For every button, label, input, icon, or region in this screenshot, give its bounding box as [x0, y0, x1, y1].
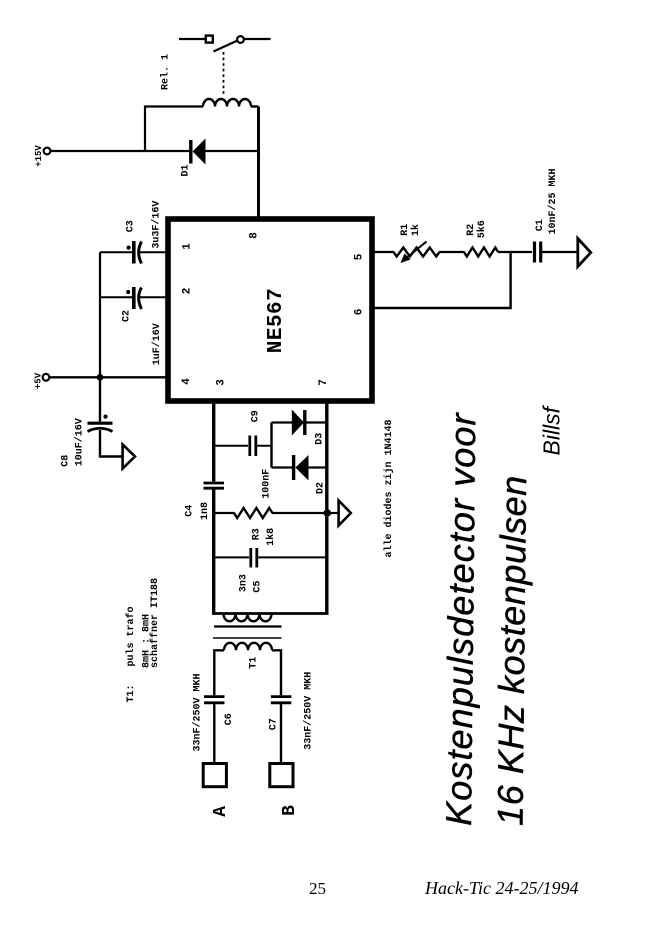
wire left vertical C3-C2-+5V	[99, 252, 101, 377]
diode D1 triangle	[193, 139, 206, 165]
ground symbol at R3 junction	[339, 501, 351, 526]
capacitor C2 wire left	[100, 296, 132, 298]
svg-text:R2: R2	[466, 224, 477, 236]
wire +15V rail to D1	[51, 150, 190, 152]
svg-text:5: 5	[354, 253, 366, 260]
relay actuation dashed link	[223, 52, 225, 95]
capacitor C1 plates	[533, 242, 536, 263]
resistor R1 (trimmer) zigzag	[394, 248, 440, 257]
svg-text:C6: C6	[224, 713, 235, 725]
wire junction to ground	[327, 512, 338, 514]
svg-text:+15V: +15V	[34, 145, 44, 167]
+15V terminal	[44, 148, 51, 155]
transformer T1 secondary winding	[224, 643, 272, 650]
diode D3 cathode bar	[303, 410, 306, 435]
svg-text:33nF/250V MKH: 33nF/250V MKH	[303, 672, 315, 750]
op-amp/IC NE567 body	[168, 219, 372, 401]
svg-text:A: A	[211, 806, 231, 817]
resistor R3 zigzag	[234, 508, 272, 518]
relay contact fixed terminal (square)	[206, 36, 213, 43]
capacitor C7 bottom wire	[280, 704, 282, 764]
svg-text:Hack-Tic 24-25/1994: Hack-Tic 24-25/1994	[424, 878, 578, 898]
capacitor C3 straight plate	[132, 241, 136, 264]
svg-text:8: 8	[249, 232, 261, 239]
svg-text:7: 7	[318, 379, 330, 386]
ground symbol at C1	[578, 239, 591, 267]
svg-text:16 KHz kostenpulsen: 16 KHz kostenpulsen	[490, 475, 535, 826]
svg-text:C1: C1	[535, 219, 546, 231]
wire pin 3 vertical upper	[212, 401, 215, 482]
capacitor C6 bottom wire	[213, 704, 215, 764]
svg-text:33nF/250V MKH: 33nF/250V MKH	[192, 673, 204, 751]
svg-text:4: 4	[181, 378, 193, 385]
wire R2 to C1	[498, 251, 532, 253]
transformer secondary left lead	[214, 650, 224, 695]
svg-text:25: 25	[309, 879, 326, 898]
capacitor C9 wire left	[214, 445, 248, 447]
wire coil right to vertical	[251, 105, 259, 107]
relay contact blade	[214, 41, 238, 52]
capacitor C8 plus mark	[103, 415, 107, 419]
wire pin 5 to R1	[372, 251, 394, 253]
capacitor C4 plates	[204, 482, 225, 485]
capacitor C2 straight plate	[132, 287, 136, 309]
svg-text:1n8: 1n8	[200, 502, 211, 520]
svg-text:NE567: NE567	[265, 288, 288, 354]
capacitor C3 plus mark	[127, 246, 131, 250]
wire R3 to junction	[272, 512, 327, 514]
wire C4 junction to R3	[214, 512, 235, 514]
capacitor C3 wire right	[139, 251, 168, 253]
wire C1 to ground	[542, 251, 577, 253]
wire to D2	[272, 466, 294, 468]
svg-text:3: 3	[216, 379, 228, 386]
wire D2 to pin 7 line	[308, 466, 327, 468]
capacitor C3 wire left	[100, 251, 132, 253]
svg-text:100nF: 100nF	[262, 469, 273, 499]
svg-text:10nF/25 MKH: 10nF/25 MKH	[547, 168, 559, 234]
svg-text:10uF/16V: 10uF/16V	[74, 418, 86, 466]
svg-text:D2: D2	[316, 482, 327, 494]
svg-text:C2: C2	[122, 310, 133, 322]
capacitor C8 straight plate	[88, 422, 113, 425]
svg-text:5k6: 5k6	[476, 220, 488, 238]
resistor R2 zigzag	[464, 248, 498, 257]
svg-text:+5V: +5V	[34, 372, 44, 389]
capacitor C8 top wire	[99, 377, 101, 421]
diode D2 cathode bar	[292, 455, 295, 480]
svg-text:C9: C9	[251, 410, 262, 422]
capacitor C2 wire right	[139, 296, 168, 298]
svg-text:3n3: 3n3	[239, 574, 250, 592]
svg-text:schaffner IT188: schaffner IT188	[149, 578, 161, 668]
capacitor C5 wire right	[257, 556, 327, 558]
svg-text:6: 6	[354, 309, 366, 316]
transformer T1 core lines	[214, 625, 282, 627]
capacitor C2 curved plate	[139, 288, 142, 310]
capacitor C6 plates	[204, 695, 225, 698]
junction node +5V / C8	[97, 374, 104, 381]
capacitor C9 plates	[248, 436, 251, 457]
terminal A box	[203, 764, 226, 787]
svg-text:T1: puls trafo: T1: puls trafo	[125, 606, 137, 702]
relay contact left lead wire	[179, 38, 206, 40]
relay coil Rel. 1	[203, 99, 251, 106]
svg-text:D1: D1	[181, 164, 192, 176]
svg-text:alle diodes zijn 1N4148: alle diodes zijn 1N4148	[383, 419, 395, 557]
svg-text:1k8: 1k8	[265, 528, 277, 546]
capacitor C9 wire right	[256, 445, 273, 447]
svg-text:2: 2	[182, 288, 194, 295]
svg-text:C4: C4	[185, 505, 196, 517]
capacitor C2 plus mark	[126, 290, 130, 294]
svg-text:T1: T1	[249, 657, 260, 669]
diode D3 triangle	[292, 410, 304, 436]
svg-text:R3: R3	[252, 528, 263, 540]
diode D1 cathode bar	[189, 140, 192, 164]
svg-text:Billsf: Billsf	[539, 404, 565, 455]
svg-text:C7: C7	[269, 718, 280, 730]
svg-text:1: 1	[182, 243, 194, 250]
diode D2 triangle	[295, 455, 308, 481]
capacitor C8 bottom wire	[100, 430, 122, 457]
relay contact right lead wire	[245, 38, 271, 40]
terminal B box	[270, 764, 293, 787]
svg-text:1k: 1k	[410, 224, 422, 236]
transformer T1 primary top wire	[212, 612, 329, 615]
capacitor C8 curved plate	[88, 428, 113, 431]
capacitor C7 plates	[271, 695, 292, 698]
capacitor C5 wire left	[214, 556, 249, 558]
svg-text:C5: C5	[253, 581, 264, 593]
junction node R3 / pin 7 / ground	[324, 509, 332, 517]
svg-text:C8: C8	[61, 455, 72, 467]
wire D1 to pin8 vertical	[205, 150, 260, 152]
wire D3 to pin 7 line	[305, 421, 327, 423]
svg-text:R1: R1	[400, 224, 411, 236]
wire pin 7 vertical	[325, 401, 328, 615]
wire pin 3 vertical lower	[212, 490, 215, 615]
svg-text:1uF/16V: 1uF/16V	[151, 323, 163, 365]
svg-text:C3: C3	[126, 220, 137, 232]
transformer secondary right lead	[272, 650, 281, 695]
relay Rel.1 coil loop left vertical wire	[145, 107, 203, 152]
diode branch left vertical wire	[270, 423, 272, 468]
+5V terminal	[43, 374, 50, 381]
svg-text:D3: D3	[315, 433, 326, 445]
relay contact moving terminal (circle)	[237, 36, 244, 43]
svg-text:Kostenpulsdetector voor: Kostenpulsdetector voor	[438, 411, 483, 826]
wire pin 8 vertical (coil right / D1 / pin 8)	[257, 107, 260, 220]
svg-text:3u3F/16V: 3u3F/16V	[151, 201, 163, 249]
pin 6 feedback loop wire	[372, 252, 511, 308]
resistor R1 adjustment arrow	[405, 242, 427, 260]
capacitor C3 curved plate	[139, 242, 142, 264]
wire to D3	[272, 421, 293, 423]
svg-text:Rel. 1: Rel. 1	[160, 54, 172, 90]
transformer T1 primary winding	[224, 614, 272, 622]
capacitor C5 plates	[249, 548, 252, 568]
wire +5V rail to pin 4	[50, 376, 169, 378]
wire R1 to R2	[439, 251, 465, 253]
ground symbol at C8	[123, 445, 135, 469]
svg-text:B: B	[280, 805, 300, 816]
